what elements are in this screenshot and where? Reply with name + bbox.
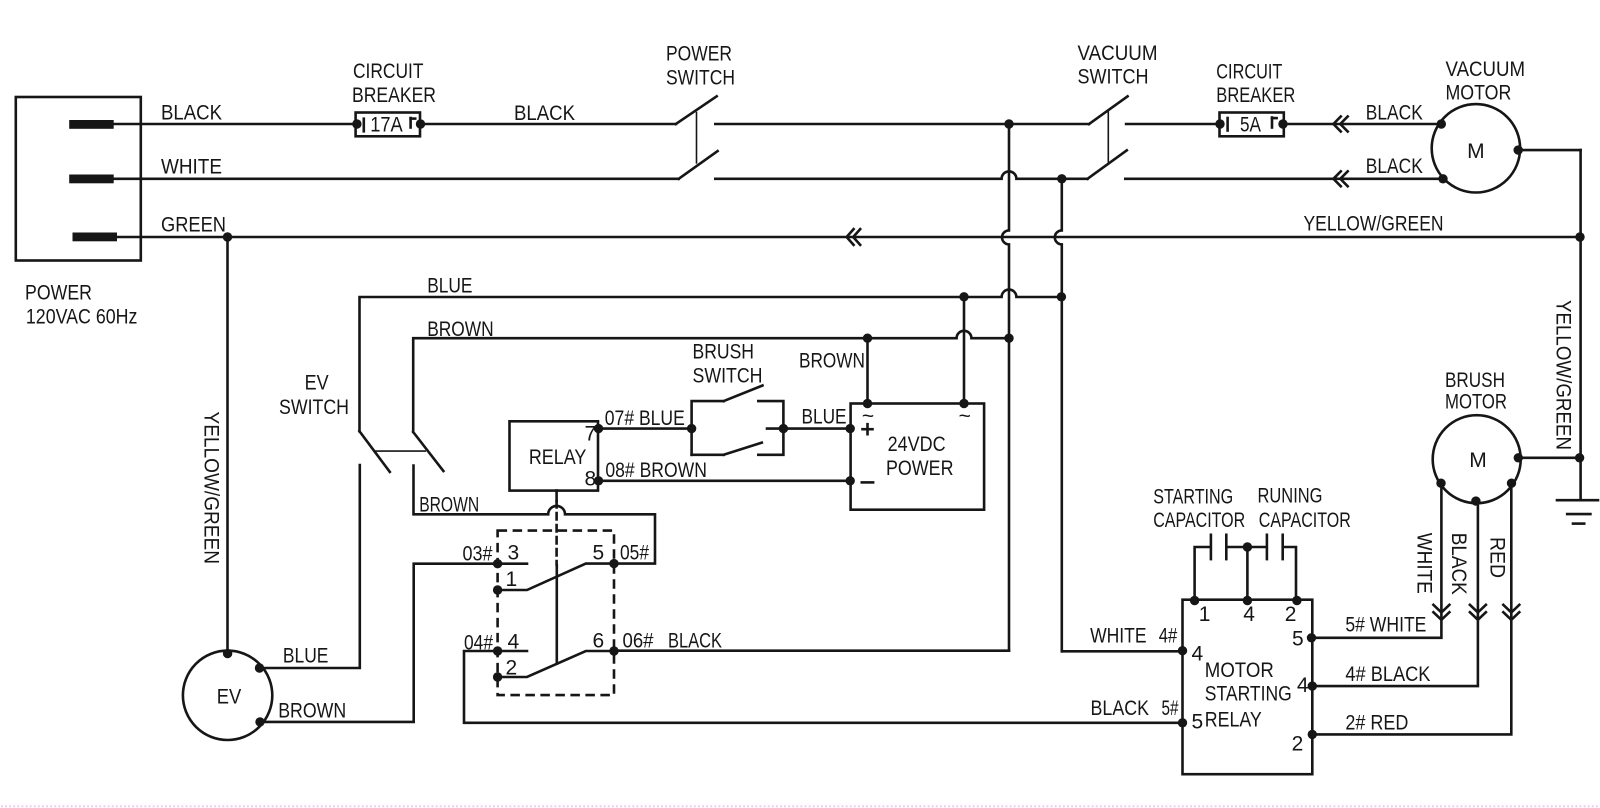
wire 04# contact 4 to motor starting relay pin 5: [464, 651, 1183, 723]
vertical bus from WHITE tap (hops over earth bus): [1055, 179, 1062, 652]
svg-text:BLACK: BLACK: [1447, 533, 1470, 595]
svg-text:17A: 17A: [370, 114, 403, 137]
ground symbol: [1557, 500, 1598, 523]
label BRUSH MOTOR: [1445, 369, 1507, 414]
24VDC POWER supply U2: [846, 399, 985, 510]
wire BLUE EV-switch feed (hops BLACK bus): [360, 290, 1062, 432]
svg-text:WHITE: WHITE: [161, 155, 222, 178]
label CIRCUIT BREAKER (CB2): [1216, 60, 1295, 107]
chevrons down on BLACK: [1470, 605, 1486, 620]
svg-text:M: M: [1469, 449, 1487, 472]
svg-text:120VAC 60Hz: 120VAC 60Hz: [26, 306, 137, 329]
svg-text:7: 7: [584, 422, 596, 445]
junction earth bus / brush motor: [1575, 453, 1584, 462]
svg-text:5: 5: [1292, 627, 1304, 650]
plug prong GREEN: [73, 233, 118, 242]
contact block dashed box: [498, 531, 614, 696]
svg-text:CAPACITOR: CAPACITOR: [1153, 509, 1245, 532]
svg-text:SWITCH: SWITCH: [666, 67, 735, 90]
svg-text:POWER: POWER: [886, 457, 954, 480]
svg-text:BLACK: BLACK: [161, 101, 222, 124]
chevrons down on RED: [1503, 605, 1519, 620]
svg-text:CIRCUIT: CIRCUIT: [1216, 60, 1282, 83]
svg-text:4#: 4#: [1159, 625, 1178, 648]
svg-text:5#: 5#: [1162, 697, 1179, 720]
svg-text:5: 5: [1192, 711, 1204, 734]
junction BROWN to BLACK bus: [1004, 334, 1013, 343]
wire BLACK plug to CB1: [114, 123, 357, 126]
wire 08# BROWN relay pin8 to 24VDC minus: [599, 479, 851, 482]
chevrons on YELLOW/GREEN: [847, 229, 861, 245]
svg-text:5# WHITE: 5# WHITE: [1345, 614, 1426, 637]
svg-text:YELLOW/GREEN: YELLOW/GREEN: [200, 412, 223, 565]
power connector plug P1: [16, 97, 141, 261]
wire BLUE brush switch to 24VDC plus: [767, 427, 850, 430]
dashed actuation link relay to contact block: [555, 491, 558, 664]
svg-text:GREEN: GREEN: [161, 213, 226, 236]
wire vacuum motor to earth bus: [1518, 149, 1580, 152]
svg-text:EV: EV: [217, 685, 242, 708]
label VACUUM MOTOR: [1446, 58, 1526, 105]
svg-text:4: 4: [1192, 642, 1204, 665]
svg-text:BLUE: BLUE: [802, 405, 847, 428]
svg-text:CIRCUIT: CIRCUIT: [353, 60, 424, 83]
svg-text:2: 2: [1292, 732, 1304, 755]
junction BLUE drop: [959, 292, 968, 301]
wire WHITE power switch to vacuum switch (hops BLACK bus): [715, 171, 1087, 178]
svg-text:RELAY: RELAY: [1205, 709, 1262, 732]
svg-text:2# RED: 2# RED: [1345, 712, 1408, 735]
svg-text:WHITE: WHITE: [1090, 625, 1147, 648]
wire BROWN EV-switch feed (hops BLUE drop): [413, 331, 1009, 432]
svg-text:1: 1: [506, 568, 518, 591]
starting capacitor C1: [1195, 535, 1248, 601]
svg-text:BROWN: BROWN: [419, 493, 479, 516]
svg-text:4# BLACK: 4# BLACK: [1345, 663, 1430, 686]
svg-text:CAPACITOR: CAPACITOR: [1259, 509, 1351, 532]
wire BLACK vacuum switch to vacuum motor lower: [1125, 178, 1443, 181]
svg-text:WHITE: WHITE: [1413, 533, 1436, 594]
svg-text:POWER: POWER: [666, 43, 732, 66]
svg-text:BLACK: BLACK: [1366, 155, 1423, 178]
junction BROWN drop: [863, 334, 872, 343]
svg-text:BLACK: BLACK: [514, 102, 575, 125]
vertical bus from BLACK tap (hops over earth bus): [1002, 124, 1009, 651]
svg-text:SWITCH: SWITCH: [1078, 66, 1149, 89]
svg-text:STARTING: STARTING: [1205, 683, 1292, 706]
svg-text:BRUSH: BRUSH: [1445, 369, 1505, 392]
wire BLACK vacuum switch to CB2: [1126, 123, 1220, 126]
svg-text:RUNING: RUNING: [1258, 485, 1323, 508]
label RUNING CAPACITOR: [1258, 485, 1351, 532]
label POWER 120VAC 60Hz: [25, 281, 137, 328]
chevrons down on WHITE: [1433, 605, 1449, 620]
running capacitor C2: [1243, 535, 1296, 601]
relay U1: [510, 421, 604, 490]
label VACUUM SWITCH: [1078, 42, 1158, 89]
svg-text:~: ~: [959, 405, 971, 428]
svg-text:2: 2: [506, 656, 518, 679]
contact 4 stub: [493, 646, 527, 655]
wire BROWN EV switch to contact 05# (hops dashed link): [414, 466, 656, 564]
power switch S1: [676, 96, 718, 179]
wire BLACK CB2 to vacuum motor: [1283, 123, 1441, 126]
svg-text:BREAKER: BREAKER: [352, 84, 436, 107]
svg-text:07# BLUE: 07# BLUE: [605, 407, 685, 430]
plug prong WHITE: [69, 175, 114, 184]
svg-text:5A: 5A: [1240, 113, 1261, 136]
svg-text:RELAY: RELAY: [529, 446, 587, 469]
svg-text:VACUUM: VACUUM: [1446, 58, 1526, 81]
circuit breaker CB2 5A: [1215, 113, 1287, 137]
wire GREEN / YELLOW-GREEN earth bus: [117, 236, 1580, 239]
plug prong BLACK: [69, 120, 114, 129]
wire 06# BLACK contact 6 to BLACK bus: [614, 649, 1009, 652]
svg-text:BRUSH: BRUSH: [693, 341, 755, 364]
junction WHITE tap: [1057, 174, 1066, 183]
svg-text:05#: 05#: [620, 542, 649, 565]
svg-text:03#: 03#: [463, 542, 493, 565]
wire 5# WHITE relay pin5 to brush motor: [1312, 483, 1441, 638]
svg-text:BLUE: BLUE: [283, 644, 329, 667]
junction BLACK tap: [1004, 119, 1013, 128]
wire BLUE EV motor to EV switch: [260, 465, 360, 668]
label BRUSH SWITCH: [693, 341, 763, 388]
wire GREEN drop to EV motor: [226, 237, 229, 654]
label EV SWITCH: [279, 372, 349, 419]
svg-text:MOTOR: MOTOR: [1205, 659, 1274, 682]
svg-text:MOTOR: MOTOR: [1445, 391, 1507, 414]
EV motor: [183, 649, 272, 740]
wire 07# BLUE relay pin7 to brush switch: [599, 427, 692, 430]
svg-text:BLACK: BLACK: [1366, 101, 1423, 124]
svg-text:YELLOW/GREEN: YELLOW/GREEN: [1552, 300, 1575, 450]
svg-text:YELLOW/GREEN: YELLOW/GREEN: [1304, 212, 1444, 235]
vacuum motor M1: [1432, 104, 1523, 192]
svg-text:4: 4: [508, 630, 520, 653]
wire BLACK power switch to vacuum switch: [715, 123, 1089, 126]
brush motor M2: [1433, 415, 1523, 506]
motor starting relay U3: [1178, 596, 1317, 774]
junction BLUE to WHITE bus: [1057, 292, 1066, 301]
svg-text:6: 6: [593, 629, 605, 652]
EV switch S3: [359, 431, 443, 472]
svg-text:POWER: POWER: [25, 281, 92, 304]
label STARTING CAPACITOR: [1153, 485, 1245, 532]
contact blade 2 to 6: [493, 646, 619, 681]
svg-text:BLACK: BLACK: [1091, 697, 1150, 720]
svg-text:RED: RED: [1485, 537, 1508, 578]
svg-text:BROWN: BROWN: [278, 700, 346, 723]
wire BLACK CB1 to power switch: [421, 123, 676, 126]
chevrons on BLACK (lower): [1333, 171, 1347, 186]
svg-text:06#: 06#: [623, 629, 654, 652]
svg-text:EV: EV: [305, 372, 329, 395]
svg-text:24VDC: 24VDC: [888, 433, 946, 456]
junction GREEN tap to EV: [223, 232, 232, 241]
wire WHITE 4# to motor starting relay pin 4: [1062, 650, 1183, 653]
label CIRCUIT BREAKER (CB1): [352, 60, 436, 107]
svg-text:SWITCH: SWITCH: [279, 396, 349, 419]
chevrons on BLACK (vacuum motor feed): [1333, 117, 1347, 132]
wire BROWN drop to 24VDC transformer input: [866, 338, 869, 403]
svg-text:BROWN: BROWN: [427, 318, 494, 341]
svg-text:4: 4: [1243, 603, 1255, 626]
svg-text:BLACK: BLACK: [668, 629, 722, 652]
svg-text:VACUUM: VACUUM: [1078, 42, 1158, 65]
junction earth bus / YELLOW-GREEN: [1575, 232, 1584, 241]
svg-text:STARTING: STARTING: [1153, 485, 1233, 508]
earth bus vertical right: [1579, 150, 1582, 500]
contact blade 1 to 5: [493, 559, 619, 595]
label POWER SWITCH: [666, 43, 735, 90]
svg-text:5: 5: [593, 542, 605, 565]
wire brush motor to earth bus: [1518, 456, 1579, 459]
vacuum switch S2: [1088, 96, 1128, 179]
brush switch S4: [687, 386, 788, 455]
contact 3 stub: [493, 559, 527, 568]
svg-text:SWITCH: SWITCH: [693, 365, 763, 388]
circuit breaker CB1 17A: [352, 113, 425, 137]
svg-text:BROWN: BROWN: [799, 350, 865, 373]
wire 4# BLACK relay pin4 to brush motor: [1312, 501, 1478, 686]
wire 2# RED relay pin2 to brush motor: [1312, 483, 1511, 734]
svg-text:BREAKER: BREAKER: [1216, 84, 1295, 107]
wire WHITE plug to power switch: [114, 178, 679, 181]
svg-text:4: 4: [1297, 674, 1309, 697]
svg-text:BLUE: BLUE: [427, 275, 472, 298]
wire 03# contact 3 to EV motor BROWN: [260, 564, 498, 722]
svg-text:1: 1: [1199, 603, 1211, 626]
svg-text:08# BROWN: 08# BROWN: [605, 459, 707, 482]
svg-text:MOTOR: MOTOR: [1446, 82, 1512, 105]
svg-text:2: 2: [1285, 603, 1297, 626]
svg-text:3: 3: [508, 542, 520, 565]
svg-text:M: M: [1467, 140, 1485, 163]
wire BLUE drop to 24VDC transformer input: [963, 297, 966, 404]
